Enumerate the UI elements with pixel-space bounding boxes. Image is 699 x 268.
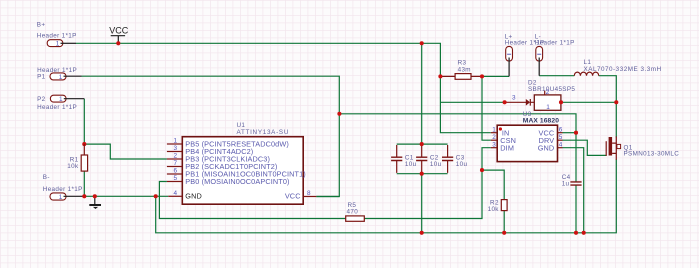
svg-text:6: 6 [559,126,563,133]
junction node bus at C2 drop [420,231,424,235]
svg-text:10u: 10u [456,161,468,168]
U3 pin 5 DRV [558,139,563,141]
capacitor C2 [416,145,442,173]
svg-text:U1: U1 [237,122,246,129]
wire DIM junction to R2 top [482,170,504,200]
IC U3 MAX 16820 [491,111,563,162]
resistor R5 [346,202,365,221]
svg-text:10u: 10u [405,161,417,168]
svg-text:Header 1*1P: Header 1*1P [535,40,575,47]
wire ground rail B- to U1 pin 4 [84,195,168,197]
junction node DIM / R5 / R2 [480,168,484,172]
svg-text:VCC: VCC [109,25,129,35]
svg-text:6: 6 [173,168,177,175]
wire U1 PB0 to R5 [159,182,345,219]
svg-text:1: 1 [546,104,550,111]
svg-text:10k: 10k [67,163,79,170]
svg-text:Header 1*1P: Header 1*1P [37,104,77,111]
capacitor C3 [442,145,468,173]
resistor R1 [67,144,87,171]
junction node ground bus drop [154,194,158,198]
wire R3 right to L+ [482,75,509,77]
svg-text:Header 1*1P: Header 1*1P [37,33,77,40]
svg-text:B-: B- [43,174,50,181]
inductor L1 XAL7070-332ME 3.3mH [574,59,661,76]
wire D2 anode branch [440,101,504,103]
svg-text:3: 3 [173,145,177,152]
svg-text:GND: GND [538,143,555,152]
power symbol VCC [109,25,129,43]
svg-text:P2: P2 [37,96,46,103]
junction node bus at MAX GND drop [582,231,586,235]
resistor R3 [440,60,481,80]
junction node R3 left [438,74,442,78]
svg-text:VCC: VCC [285,192,301,201]
connector B+ Header 1*1P [37,22,77,48]
wire DIM junction to MAX16820 DIM pin [482,148,491,170]
connector B- Header 1*1P [43,174,85,201]
junction node R1 bottom on ground rail [82,194,86,198]
svg-text:5: 5 [173,175,177,182]
wire junction to U1 pin 2 PB3 [84,144,167,159]
svg-text:PSMN013-30MLC: PSMN013-30MLC [624,151,680,158]
svg-text:DIM: DIM [500,143,514,152]
U1 pin 1 [167,143,182,145]
U3 pin 1 IN [491,132,497,134]
wire L1 right down to D2 cathode and Q1 drain [599,76,617,138]
svg-text:P1: P1 [37,74,46,81]
wire capacitor top rail [397,143,448,145]
junction node MAX VCC / C4 [574,131,578,135]
svg-text:PB0 (MOSIAIN0OC0APCINT0): PB0 (MOSIAIN0OC0APCINT0) [185,177,289,186]
wire MAX16820 DRV to Q1 gate [563,140,607,155]
diode D2 SBR10U45SP5 [505,80,576,112]
wire U1 pin 8 to P1 vertical [316,196,339,198]
wire R3 right to MAX16820 CSN [482,76,491,140]
wire C2 bottom to ground bus [421,174,423,233]
junction node D2 cathode [559,100,563,104]
svg-text:Header 1*1P: Header 1*1P [43,186,83,193]
svg-text:470: 470 [347,209,359,216]
svg-text:7: 7 [173,160,177,167]
wire branch P1 net to MAX16820 VCC and C4 [339,114,576,182]
wire L- to L1 left [539,75,574,77]
capacitor C4 [562,174,582,188]
svg-text:ATTINY13A-SU: ATTINY13A-SU [237,129,290,136]
svg-text:5: 5 [559,134,563,141]
U1 pin 2 [167,158,182,160]
svg-text:10k: 10k [488,206,500,213]
junction node P1 branch [337,112,341,116]
junction node bus at C4 [574,231,578,235]
svg-text:4: 4 [559,141,563,148]
U3 pin 3 DIM [491,147,497,149]
U1 pin 7 [167,166,182,168]
svg-text:3: 3 [512,94,516,101]
svg-text:2: 2 [492,134,496,141]
svg-text:43m: 43m [458,67,471,74]
junction node B+ branch [420,41,424,45]
U1 pin 3 [167,151,182,153]
wire branch B+ down to capacitor top rail [421,43,423,144]
svg-text:MAX 16820: MAX 16820 [523,118,559,125]
connector L+ Header 1*1P [505,34,545,77]
junction node capacitor bottom rail [420,172,424,176]
svg-text:1: 1 [59,74,63,81]
svg-text:R3: R3 [458,60,467,67]
junction node ground symbol [93,194,97,198]
svg-text:1: 1 [173,138,177,145]
wire C4 bottom to ground bus [575,185,577,233]
wire P1 to U1 pin 8 [82,76,340,196]
wire R2 bottom to ground bus [503,211,505,233]
transistor Q1 PSMN013-30MLC [606,137,679,160]
wire R3 left vertical and IN wire [440,76,490,132]
junction node bus at R2 [502,231,506,235]
svg-text:1u: 1u [562,181,570,188]
U3 pin 6 VCC [558,132,563,134]
svg-text:B+: B+ [37,22,46,29]
U1 pin 6 [167,173,182,175]
svg-text:2: 2 [173,153,177,160]
resistor R2 [488,200,508,213]
wire P2 down to R1 junction [83,99,85,144]
IC U1 ATTINY13A-SU [167,122,316,204]
wire MAX16820 GND to ground bus [563,148,584,233]
svg-text:GND: GND [185,192,202,201]
svg-text:3: 3 [492,141,496,148]
svg-text:2: 2 [546,89,550,96]
junction node R3 right [480,74,484,78]
wire R1 bottom to ground rail [83,171,85,196]
svg-text:8: 8 [307,190,311,197]
svg-text:1: 1 [492,126,496,133]
svg-text:SBR10U45SP5: SBR10U45SP5 [528,86,575,93]
capacitor C1 [391,145,417,173]
U3 pin 2 CSN [491,139,497,141]
U1 pin 5 [167,181,182,183]
junction node VCC on B+ wire [116,41,120,45]
wire ground bus [156,159,617,233]
U3 pin 4 GND [558,147,563,149]
ground symbol [89,196,101,209]
svg-text:4: 4 [173,190,177,197]
svg-text:1: 1 [59,96,63,103]
wire MAX16820 VCC pin to C4 vertical [563,132,577,134]
junction node L1 / Q1 drain [614,100,618,104]
svg-text:1: 1 [56,41,60,48]
connector L- Header 1*1P [535,34,575,76]
U1 pin 8 VCC [303,196,316,198]
junction node capacitor top rail [420,142,424,146]
connector P2 Header 1*1P [37,95,84,111]
wire R5 to DIM junction [364,170,482,218]
junction node D2 anode [503,100,507,104]
svg-text:10u: 10u [430,161,442,168]
U1 pin 4 GND [168,195,182,197]
wire B+ to R3 corner [76,43,440,76]
svg-text:1: 1 [59,194,63,201]
wire capacitor bottom rail [397,173,448,175]
junction node R1 top / P2 / PB3 [82,142,86,146]
connector P1 Header 1*1P [37,67,81,81]
wire D2 cathode to Q1 drain vertical [561,101,616,103]
